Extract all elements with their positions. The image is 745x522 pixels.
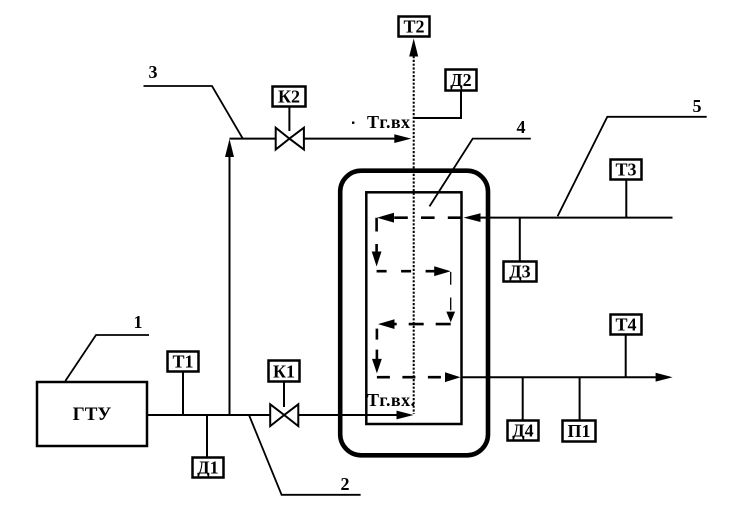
arrow: row4 right into outlet: [445, 372, 461, 382]
wire: main exhaust pipe ГТУ to valve К1: [148, 414, 271, 416]
arrow: bypass gas inlet: [394, 134, 411, 143]
block ГТУ (gas turbine unit): [37, 382, 147, 446]
sensor box Д1: [193, 415, 224, 478]
sensor box Д2 with elbow wire: [414, 70, 477, 119]
arrow: drop 1 down: [372, 252, 382, 267]
valve К2: [273, 87, 306, 150]
svg-text:Д3: Д3: [509, 262, 530, 282]
svg-text:1: 1: [134, 312, 143, 332]
svg-text:4: 4: [517, 117, 526, 137]
svg-text:Т1: Т1: [172, 352, 193, 372]
pointer line 5: [558, 117, 707, 216]
arrow: row2 right: [434, 266, 451, 276]
arrow: drop 3 down: [372, 359, 382, 374]
arrow: outlet flow right: [656, 373, 673, 382]
sensor box Д4: [508, 377, 539, 440]
arrow: row3 left: [378, 319, 395, 329]
svg-text:Тг.вх.: Тг.вх.: [367, 390, 415, 410]
arrow: stream 5 into core: [464, 213, 481, 222]
sensor box Т3: [611, 160, 642, 218]
arrow: drop 2 down: [446, 312, 455, 323]
valve К1: [269, 361, 300, 427]
wire: bypass pipe to valve К2: [230, 138, 277, 140]
sensor box П1: [563, 377, 596, 441]
svg-text:2: 2: [341, 474, 350, 494]
svg-text:Т3: Т3: [615, 160, 636, 180]
heat exchanger outer shell: [340, 171, 488, 456]
pointer line 2: [249, 415, 361, 495]
pointer line 1: [65, 335, 149, 381]
svg-text:3: 3: [149, 62, 158, 82]
svg-text:Д4: Д4: [512, 421, 533, 441]
arrow: bypass flow up: [225, 139, 234, 157]
dashed serpentine row 1 (flow right to left): [394, 216, 461, 219]
sensor box Д3: [504, 218, 537, 282]
dashed serpentine row 4 (flow left to right): [377, 376, 447, 379]
wire: valve К1 to heat exchanger inlet: [298, 414, 399, 416]
svg-text:Д2: Д2: [450, 70, 471, 90]
svg-text:5: 5: [693, 96, 702, 116]
heat exchanger inner core: [366, 192, 461, 424]
wire: heated medium inlet pipe (stream 5): [480, 217, 673, 219]
dashed vertical drop 3: [376, 329, 379, 360]
dashed serpentine row 3 (flow right to left): [394, 323, 451, 326]
sensor box Т2: [399, 17, 430, 37]
svg-text:К1: К1: [273, 362, 295, 382]
wire: heated medium outlet pipe: [462, 376, 657, 378]
pointer line 4: [430, 139, 531, 207]
svg-text:Д1: Д1: [197, 458, 218, 478]
arrow: row1 left: [377, 213, 394, 223]
wire: valve К2 to dotted axis: [304, 138, 398, 140]
svg-text:Т4: Т4: [615, 315, 636, 335]
dashed serpentine row 2 (flow left to right): [377, 270, 436, 273]
wire: dotted gas axis line: [413, 56, 415, 414]
thin dashed vertical drop 2: [450, 272, 452, 311]
svg-text:Тг.вх: Тг.вх: [367, 112, 410, 132]
arrow: gas inlet into heat exchanger: [397, 411, 414, 420]
sensor box Т1: [168, 352, 199, 416]
svg-text:К2: К2: [278, 87, 300, 107]
pointer line 3: [144, 86, 244, 139]
node: dot before Тг.вх top: [352, 122, 354, 124]
dashed vertical drop 1: [375, 218, 378, 252]
svg-text:П1: П1: [567, 421, 590, 441]
wire: bypass branch vertical riser: [229, 155, 231, 415]
svg-text:ГТУ: ГТУ: [73, 404, 112, 425]
sensor box Т4: [611, 315, 642, 378]
svg-text:Т2: Т2: [403, 17, 424, 37]
arrow: to sensor Т2: [409, 39, 418, 57]
